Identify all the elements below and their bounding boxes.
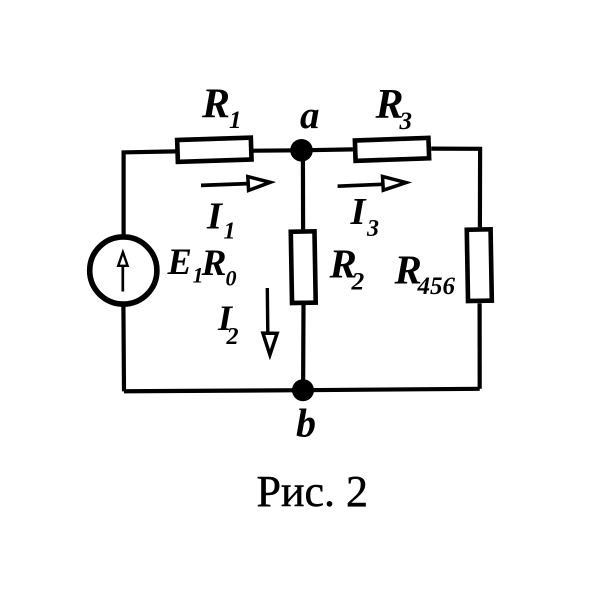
label I1: [206, 195, 236, 244]
wire: node a to R3: [302, 147, 353, 152]
svg-text:I: I: [206, 195, 224, 237]
label R456: [394, 247, 456, 301]
wire: right vertical bottom: [478, 303, 482, 389]
wire: left vertical bottom: [121, 304, 126, 392]
wire: right vertical top and top-right corner: [431, 149, 480, 228]
wire: R1 to node a: [253, 148, 301, 153]
svg-text:2: 2: [351, 267, 365, 296]
svg-text:R: R: [201, 82, 230, 128]
resistor R2: [291, 231, 316, 303]
label I3: [350, 191, 380, 242]
svg-text:3: 3: [399, 108, 413, 135]
svg-text:0: 0: [226, 266, 237, 291]
current arrow I3: [338, 176, 407, 190]
resistor R456: [467, 229, 492, 301]
current arrow I1: [201, 177, 270, 191]
label R1: [201, 82, 242, 135]
node a: [290, 139, 313, 162]
wire: middle vertical top (node a to R2): [301, 150, 305, 229]
label R3: [375, 82, 413, 135]
svg-text:R: R: [201, 243, 227, 284]
label R2: [329, 241, 365, 296]
svg-text:2: 2: [226, 324, 239, 350]
svg-text:b: b: [296, 401, 316, 446]
current arrow I2: [263, 288, 277, 355]
wire: middle vertical bottom (R2 to node b): [301, 305, 306, 390]
svg-text:I: I: [350, 191, 368, 233]
svg-text:E: E: [167, 241, 192, 282]
svg-text:Рис. 2: Рис. 2: [257, 467, 369, 516]
svg-text:1: 1: [224, 219, 236, 245]
svg-text:456: 456: [417, 273, 456, 300]
node b: [292, 379, 314, 401]
label I2: [217, 298, 239, 350]
svg-text:1: 1: [229, 107, 242, 134]
current source E1: [90, 237, 157, 304]
resistor R3: [355, 138, 429, 161]
svg-text:a: a: [300, 94, 320, 137]
wire: bottom horizontal through node b: [124, 389, 480, 392]
resistor R1: [177, 138, 251, 162]
wire: top-left horizontal and left vertical to source: [124, 151, 176, 237]
svg-text:3: 3: [366, 216, 379, 242]
label E1 R0: [167, 241, 237, 291]
